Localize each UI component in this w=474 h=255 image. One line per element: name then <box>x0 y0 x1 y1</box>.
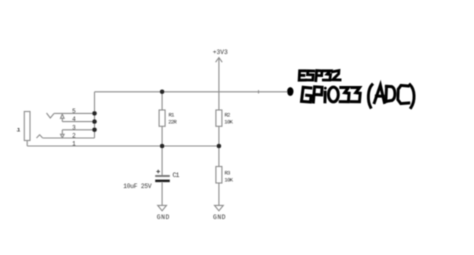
svg-text:10uF 25V: 10uF 25V <box>123 183 152 190</box>
svg-text:+3V3: +3V3 <box>213 49 228 56</box>
svg-text:4: 4 <box>72 116 76 123</box>
svg-text:C1: C1 <box>173 172 180 179</box>
svg-text:10K: 10K <box>224 120 233 126</box>
svg-text:22R: 22R <box>168 120 177 126</box>
svg-text:5: 5 <box>72 108 76 115</box>
svg-text:GND: GND <box>157 214 170 221</box>
svg-text:R3: R3 <box>225 170 231 176</box>
svg-text:10K: 10K <box>224 178 233 184</box>
svg-text:R1: R1 <box>169 112 175 118</box>
svg-text:3: 3 <box>72 124 76 131</box>
svg-text:J1: J1 <box>16 126 21 133</box>
svg-text:2: 2 <box>72 133 76 140</box>
svg-text:1: 1 <box>72 141 76 148</box>
svg-text:R2: R2 <box>225 112 231 118</box>
svg-text:GND: GND <box>213 214 226 221</box>
